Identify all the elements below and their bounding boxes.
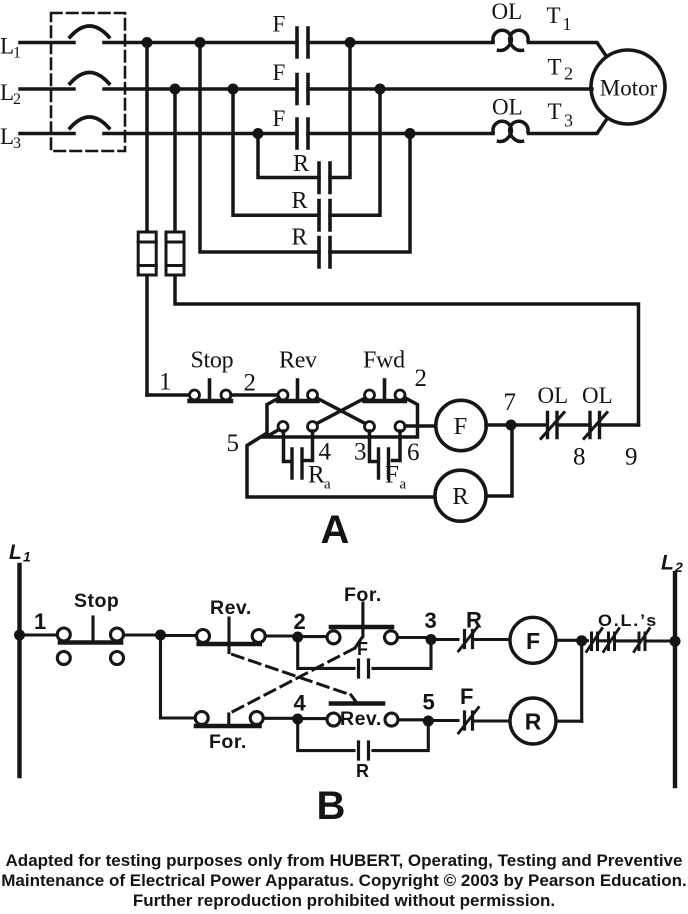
svg-text:5: 5 bbox=[423, 690, 435, 715]
svg-text:R: R bbox=[308, 462, 325, 489]
svg-text:OL: OL bbox=[492, 0, 523, 24]
svg-text:2: 2 bbox=[244, 370, 257, 397]
svg-text:O.L.’s: O.L.’s bbox=[598, 611, 658, 630]
svg-text:Rev.: Rev. bbox=[340, 708, 382, 730]
svg-text:F: F bbox=[273, 12, 286, 37]
svg-text:3: 3 bbox=[564, 111, 573, 131]
svg-text:T: T bbox=[547, 3, 561, 28]
svg-text:a: a bbox=[324, 477, 331, 493]
svg-text:F: F bbox=[385, 462, 399, 489]
svg-text:R: R bbox=[525, 709, 542, 735]
svg-text:7: 7 bbox=[504, 389, 517, 416]
svg-text:9: 9 bbox=[625, 444, 638, 471]
svg-text:L: L bbox=[661, 552, 674, 575]
svg-text:F: F bbox=[273, 60, 286, 85]
svg-text:F: F bbox=[460, 684, 473, 709]
svg-text:For.: For. bbox=[209, 731, 247, 753]
svg-text:For.: For. bbox=[344, 584, 382, 606]
svg-text:R: R bbox=[466, 608, 482, 633]
svg-text:a: a bbox=[400, 477, 407, 493]
svg-text:L: L bbox=[0, 80, 14, 105]
svg-text:T: T bbox=[548, 99, 562, 124]
svg-text:F: F bbox=[357, 639, 368, 659]
svg-text:Maintenance of Electrical Powe: Maintenance of Electrical Power Apparatu… bbox=[1, 871, 686, 890]
svg-text:1: 1 bbox=[159, 369, 172, 396]
svg-text:Rev: Rev bbox=[279, 348, 317, 374]
svg-text:Motor: Motor bbox=[600, 76, 658, 101]
svg-text:Fwd: Fwd bbox=[363, 348, 405, 374]
svg-text:F: F bbox=[273, 106, 286, 131]
svg-text:Stop: Stop bbox=[74, 590, 119, 612]
svg-text:R: R bbox=[292, 225, 308, 251]
svg-text:Rev.: Rev. bbox=[210, 597, 252, 619]
svg-text:L: L bbox=[0, 34, 14, 59]
svg-text:4: 4 bbox=[294, 691, 307, 716]
svg-text:1: 1 bbox=[563, 14, 572, 34]
svg-text:Stop: Stop bbox=[191, 348, 234, 374]
svg-text:R: R bbox=[356, 761, 369, 781]
svg-text:OL: OL bbox=[582, 383, 613, 408]
svg-text:F: F bbox=[526, 628, 540, 654]
svg-text:R: R bbox=[452, 483, 469, 510]
svg-text:3: 3 bbox=[354, 439, 367, 466]
svg-text:2: 2 bbox=[564, 64, 573, 84]
svg-text:R: R bbox=[292, 188, 308, 214]
svg-text:3: 3 bbox=[425, 608, 437, 633]
svg-text:OL: OL bbox=[538, 383, 569, 408]
svg-text:L: L bbox=[0, 124, 14, 149]
svg-text:8: 8 bbox=[573, 444, 586, 471]
svg-text:6: 6 bbox=[407, 439, 420, 466]
svg-text:A: A bbox=[321, 508, 350, 552]
svg-text:2: 2 bbox=[294, 609, 306, 634]
svg-text:1: 1 bbox=[23, 549, 31, 565]
svg-text:OL: OL bbox=[492, 95, 523, 120]
svg-text:F: F bbox=[454, 413, 468, 440]
svg-text:1: 1 bbox=[34, 609, 46, 634]
svg-text:Adapted for testing purposes o: Adapted for testing purposes only from H… bbox=[6, 851, 683, 870]
svg-text:2: 2 bbox=[13, 91, 21, 108]
svg-text:2: 2 bbox=[415, 365, 428, 392]
svg-text:R: R bbox=[293, 151, 309, 177]
svg-text:1: 1 bbox=[13, 45, 21, 62]
svg-text:L: L bbox=[9, 541, 22, 564]
svg-text:Further reproduction prohibite: Further reproduction prohibited without … bbox=[133, 891, 555, 910]
svg-text:3: 3 bbox=[13, 135, 21, 152]
svg-text:2: 2 bbox=[674, 559, 683, 575]
svg-text:5: 5 bbox=[227, 430, 240, 457]
svg-text:B: B bbox=[317, 784, 346, 828]
svg-text:T: T bbox=[548, 55, 562, 80]
